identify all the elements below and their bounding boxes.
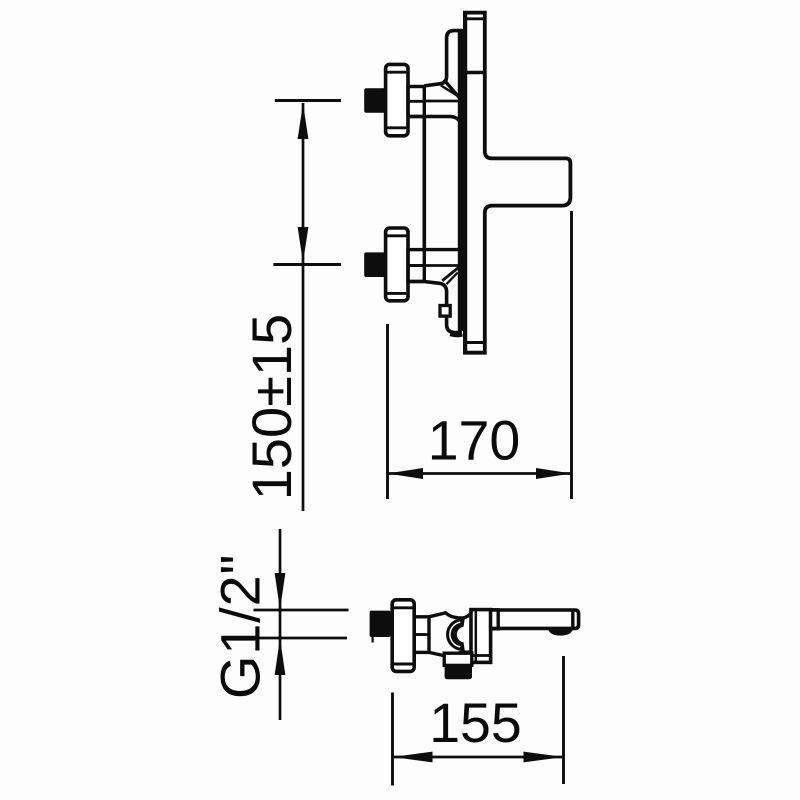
dim G12 upper reference line [254, 609, 349, 612]
wall plate outline with spout [463, 13, 570, 353]
top valve knob [364, 88, 386, 113]
dim G12 line [279, 529, 282, 720]
aerator bump [548, 628, 573, 635]
dim G12 down arrow [275, 573, 286, 610]
top handle upper inner line [386, 71, 408, 74]
bottom neck divider [408, 264, 424, 267]
wall plate left edge (dark band) [463, 11, 467, 354]
bottom cone crease diagonal [442, 268, 458, 281]
spout end cap line [571, 610, 574, 628]
dim G12 up arrow [275, 639, 286, 676]
top cone outer diagonal [444, 80, 460, 99]
main flange inner line [475, 610, 478, 662]
bottom neck top extension [424, 248, 461, 251]
dim 155 right extension line [562, 656, 565, 784]
body top stub [424, 31, 462, 86]
bottom handle lower inner line [386, 292, 408, 295]
screw detail [440, 306, 450, 317]
bottom valve handle [386, 228, 408, 301]
dim 155 left arrow [393, 752, 433, 763]
dim 150 line [302, 103, 305, 511]
dim 150 down arrow [298, 227, 309, 263]
dim 155 left extension line [391, 693, 394, 786]
dim 170 right arrow [536, 468, 572, 479]
bottom neck divider extension [424, 264, 461, 267]
top transition bottom line [408, 117, 461, 123]
bottom valve knob [364, 252, 386, 277]
bottom handle upper inner line [386, 234, 408, 237]
main flange cap line [472, 654, 491, 657]
dim 170 left arrow [388, 468, 424, 479]
top neck divider [408, 100, 424, 103]
body bottom stub [408, 282, 462, 333]
side neck divider [414, 633, 429, 636]
side flange upper inner line [393, 606, 414, 609]
wall plate bottom cap line [465, 341, 484, 344]
svg-text:150±15: 150±15 [240, 314, 303, 500]
body bottom shadow arc [450, 335, 463, 336]
main flange [471, 610, 491, 663]
top valve neck [408, 87, 424, 117]
side view handle flange [392, 600, 414, 672]
svg-text:170: 170 [428, 409, 521, 471]
side cone bottom edge and dome bottom shoulder [429, 652, 472, 656]
svg-text:G1/2": G1/2" [209, 554, 272, 699]
dim G12 lower reference line [251, 637, 348, 640]
dim 150 up arrow [298, 104, 309, 140]
spout base ring [491, 610, 499, 629]
top neck divider extension [424, 100, 461, 103]
top valve handle [386, 64, 408, 135]
top handle lower inner line [386, 126, 408, 129]
body right edge (dark band) [458, 29, 463, 331]
dim 155 right arrow [524, 752, 564, 763]
side flange lower inner line [393, 663, 414, 666]
spout bar [491, 610, 579, 628]
side view knob [370, 611, 391, 637]
top cone crease diagonal [441, 85, 458, 95]
dim 150 top reference line [275, 99, 341, 102]
svg-text:155: 155 [429, 692, 522, 754]
dim 150 bottom reference line [273, 263, 341, 266]
wall plate upper inner line [465, 71, 484, 74]
bottom cone inner diagonal [446, 273, 457, 285]
bottom valve neck [408, 250, 424, 282]
dim 170 right extension line [570, 211, 573, 499]
body mid-left edge [422, 117, 426, 250]
dim 170 line [388, 472, 572, 475]
dome crescent white split arc [450, 622, 460, 647]
side cone top edge and dome top shoulder [429, 613, 472, 618]
dome crescent [446, 618, 465, 651]
side view knob tail [372, 637, 374, 643]
outlet black box [445, 665, 472, 679]
wall plate top cap line [464, 17, 485, 20]
side view neck [414, 617, 429, 653]
outlet step box [444, 653, 472, 665]
dim 170 left extension line [386, 324, 389, 499]
dim 155 line [393, 756, 564, 759]
